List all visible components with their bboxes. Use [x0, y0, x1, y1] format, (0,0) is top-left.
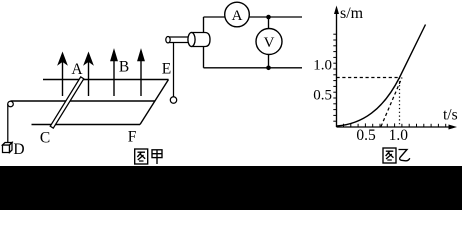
svg-text:1.0: 1.0 [389, 127, 409, 144]
svg-text:B: B [119, 59, 129, 76]
svg-text:D: D [13, 141, 24, 158]
pulley [8, 101, 14, 107]
cylinder body [188, 33, 210, 47]
top wire [204, 16, 303, 18]
y-axis ticks [333, 34, 336, 121]
svg-text:s/m: s/m [340, 5, 364, 22]
s-t curve [337, 25, 426, 127]
svg-text:V: V [264, 35, 275, 51]
terminal circle near E [170, 97, 176, 103]
svg-text:0.5: 0.5 [356, 127, 376, 144]
x-axis ticks [344, 123, 446, 127]
weight D [3, 143, 13, 153]
field arrow 4 [138, 51, 144, 97]
svg-text:F: F [128, 129, 137, 146]
front rail line [11, 100, 156, 102]
svg-text:t/s: t/s [443, 107, 458, 124]
right slant edge E-F [140, 80, 169, 125]
wire cylinder top to top wire [203, 17, 205, 33]
svg-text:A: A [232, 8, 243, 24]
wire cylinder bottom to bottom wire [203, 47, 205, 68]
field arrow 3 [111, 51, 117, 97]
black bottom bar [0, 166, 462, 210]
bottom edge C-F [32, 124, 141, 126]
svg-text:C: C [40, 130, 50, 147]
plug rod of cylinder device [166, 37, 191, 43]
graph y-axis [336, 10, 338, 127]
rod AC [50, 77, 84, 128]
junction dot top [266, 15, 271, 20]
caption 图甲 (hand drawn) [135, 149, 162, 164]
junction dot bottom [266, 66, 271, 71]
voltmeter V [256, 29, 282, 55]
dashed diagonal line [381, 78, 402, 127]
wire from plug to terminal [173, 43, 175, 97]
field arrow 1 [59, 54, 67, 97]
ammeter A [225, 2, 250, 27]
caption 图乙 (hand drawn) [383, 148, 410, 163]
back rail A-E [43, 79, 169, 81]
dashed horizontal guide [337, 77, 400, 79]
svg-text:A: A [71, 61, 83, 78]
svg-text:0.5: 0.5 [313, 88, 332, 104]
dotted vertical guide [399, 78, 401, 128]
graph x-axis [337, 126, 453, 128]
voltmeter branch wire [268, 17, 270, 68]
string [7, 104, 9, 144]
bottom wire [204, 67, 303, 69]
field arrow 2 [85, 54, 93, 97]
svg-text:E: E [162, 61, 171, 78]
svg-text:1.0: 1.0 [313, 58, 332, 74]
